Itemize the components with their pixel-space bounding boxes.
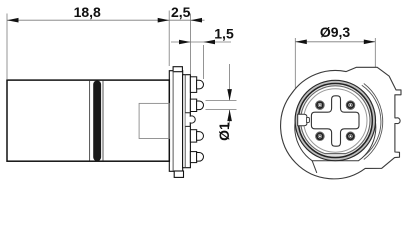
svg-text:2,5: 2,5 <box>171 4 191 20</box>
svg-text:1,5: 1,5 <box>214 26 234 42</box>
svg-text:Ø9,3: Ø9,3 <box>320 24 351 40</box>
svg-text:Ø1: Ø1 <box>216 122 232 141</box>
svg-text:18,8: 18,8 <box>74 4 101 20</box>
